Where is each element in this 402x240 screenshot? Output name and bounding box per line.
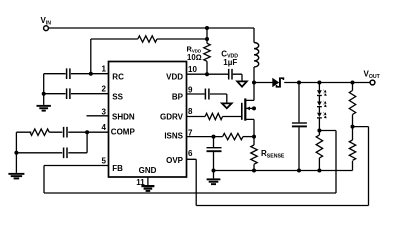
junction: RSENSE bottom / rail [252,169,256,173]
wire: SHDN stub [87,115,109,117]
junction: Q1 source / ISNS [252,135,256,139]
ground (RC/SS) [37,105,51,112]
svg-text:RSENSE: RSENSE [261,149,285,159]
wire: divider column top [352,83,354,91]
wire: diode cathode to VOUT [284,82,370,84]
wire: LED R bottom [318,158,320,171]
junction: COMP pin node [85,130,89,134]
transistor Q1 channel bar [244,98,246,120]
junction: VDD rail / RVDD bottom [205,72,209,76]
svg-text:COMP: COMP [111,128,136,137]
inductor L1 [254,43,259,67]
junction: second rail / RVDD tap [205,37,209,41]
wire: RC pin1 left segment [44,73,109,75]
svg-text:VDD: VDD [166,72,183,81]
wire: GND pin11 stub [147,177,149,185]
svg-text:VIN: VIN [41,16,52,26]
wire: SS pin2 [44,93,109,95]
svg-text:SHDN: SHDN [112,112,135,121]
svg-text:RC: RC [112,72,124,81]
wire: FB route [44,131,336,194]
resistor top (on second rail) [138,36,157,42]
svg-text:GND: GND [139,166,157,175]
capacitor on RC [67,68,70,79]
svg-text:ISNS: ISNS [164,131,183,140]
wire: drop to pin1 [90,39,92,74]
svg-text:10: 10 [188,65,197,74]
junction: RC pin / top drop [89,72,93,76]
junction: VOUT rail / COUT [297,81,301,85]
junction: LED cathode FB sense [317,129,321,133]
LED D3 [317,101,327,108]
ground (GND pin11) [141,185,154,192]
wire: RVDD tap vertical [206,28,208,43]
wire: COMP lower branch [16,132,87,153]
transistor Q1 body stub [246,107,254,109]
svg-text:11: 11 [136,178,145,187]
resistor RSENSE [251,145,257,164]
wire: VDD pin10 [187,74,243,81]
svg-text:GDRV: GDRV [160,112,184,121]
resistor COMP [30,129,49,135]
wire: ground rail [214,170,353,172]
wire: RC/SS left vertical [43,74,45,105]
svg-text:9: 9 [188,85,193,94]
svg-text:1: 1 [102,64,107,73]
wire: inductor to switch node [253,67,255,83]
capacitor BP [205,89,209,100]
wire: RVDD to VDD rail [206,61,208,74]
terminal VOUT [370,80,375,85]
resistor RVDD [204,43,210,61]
wire: ISNS R to source [243,136,254,138]
wire: OVP route [187,127,369,206]
junction: COUT bottom / rail [297,169,301,173]
LED D2 [317,89,327,96]
wire: GDRV to gate [223,116,242,118]
transistor Q1 source stub [245,119,254,136]
wire: GDRV pin8 [187,116,206,118]
junction: switch node SW [252,81,256,85]
svg-text:7: 7 [188,128,193,137]
junction: divider midpoint OVP [351,125,355,129]
transistor Q1 gate bar [241,103,243,120]
ground triangle (BP) [222,103,232,108]
wire: second rail right to RVDD tap [157,38,207,40]
svg-text:4: 4 [102,123,107,132]
wire: divider mid [352,115,354,141]
wire: BP pin9 [187,94,227,103]
junction: LED ballast / rail [317,169,321,173]
svg-text:5: 5 [102,156,107,165]
wire: second top rail left [91,38,138,40]
wire: top rail to inductor [253,28,255,43]
wire: ISNS pin7 [187,136,223,138]
wire: switch node to diode anode [254,82,273,84]
svg-text:BP: BP [172,92,184,101]
resistor divider R1 [349,91,355,115]
junction: ground rail left [212,169,216,173]
wire: VIN top rail [48,27,254,29]
resistor divider R2 [349,140,355,160]
terminal VIN [44,26,49,31]
svg-text:OVP: OVP [166,156,184,165]
junction: ISNS filter node [212,135,216,139]
capacitor COMP parallel [64,148,67,159]
wire: COMP pin4 [49,131,108,133]
junction: VOUT rail / LED string [317,81,321,85]
diode D1 schottky [272,77,284,87]
wire: rail gnd stem [213,171,215,179]
junction: VOUT rail / divider [351,81,355,85]
transistor Q1 drain stub [245,83,254,101]
wire: COMP net left [16,132,31,153]
capacitor COMP series [64,127,67,138]
IC U1 body [109,62,187,178]
wire: LED column top [318,83,320,91]
svg-text:2: 2 [102,84,107,93]
wire: RSENSE top/bottom [253,137,255,171]
svg-text:VOUT: VOUT [364,70,381,80]
wire: ISNS cap stem [213,137,215,171]
ground (COMP) [8,173,24,180]
wire: divider R2 bottom [352,161,354,171]
capacitor ISNS filter [207,147,222,149]
capacitor COUT [292,122,307,124]
junction: Q1 body-source tie [252,106,256,110]
svg-text:1µF: 1µF [223,58,237,67]
wire: COMP gnd stem [15,153,17,173]
junction: COMP gnd node [14,151,18,155]
svg-text:6: 6 [188,149,193,158]
resistor ISNS filter [223,133,243,139]
capacitor on SS [67,88,70,99]
svg-text:3: 3 [102,107,107,116]
ground triangle (CVDD) [237,81,247,86]
transistor Q1 body arrow [246,107,250,111]
resistor LED ballast [316,135,322,158]
svg-text:FB: FB [112,164,123,173]
resistor GDRV [205,113,222,119]
wire: LED interconnects [318,96,320,135]
capacitor CVDD [229,69,232,80]
junction: VIN rail / RVDD tap [205,26,209,30]
junction: SS pin / left vertical [42,92,46,96]
svg-text:10Ω: 10Ω [187,53,202,62]
svg-text:SS: SS [112,92,123,101]
ground (ISNS cap / rail) [207,178,221,185]
wire: output cap column [298,83,300,171]
svg-text:8: 8 [188,107,193,116]
LED D4 [317,112,327,119]
